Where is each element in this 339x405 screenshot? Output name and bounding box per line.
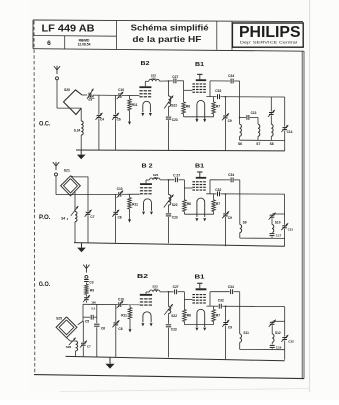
right frame double line	[301, 51, 303, 378]
capacitor C34 (G.O.)	[230, 289, 234, 294]
svg-text:C6: C6	[117, 117, 121, 121]
ground (P.O.)	[81, 243, 83, 248]
svg-text:5.5: 5.5	[91, 307, 95, 311]
transformer B2 core bar (G.O.)	[140, 294, 152, 296]
svg-text:S12: S12	[275, 331, 281, 335]
HF rail (P.O.)	[206, 193, 284, 195]
resistor R9	[85, 284, 89, 294]
wire S10 branch (P.O.)	[272, 213, 285, 215]
capacitor C13 branch (O.C.)	[240, 116, 258, 118]
transformer B1 core laminations (O.C.)	[192, 83, 195, 84]
svg-text:C 27: C 27	[173, 173, 180, 177]
paper right edge shadow	[309, 0, 311, 392]
antenna (G.O.)	[85, 269, 87, 273]
coil S9	[239, 194, 241, 225]
transformer B1 adjustable core (G.O.)	[199, 283, 201, 288]
svg-text:B1: B1	[195, 163, 204, 169]
adjustable coil S22 (G.O.)	[168, 292, 170, 307]
trimmer C9 (G.O.)	[225, 306, 227, 359]
svg-text:P.O.: P.O.	[39, 214, 51, 221]
svg-text:LF 449 AB: LF 449 AB	[42, 24, 95, 35]
transformer B1 core laminations (P.O.)	[192, 181, 195, 182]
coil S26	[67, 338, 76, 341]
trimmer capacitor 100/5.5 (O.C.)	[88, 92, 92, 98]
ground bus (O.C.)	[76, 149, 285, 152]
winding S23 (P.O.)	[150, 178, 161, 180]
svg-text:R11: R11	[132, 202, 138, 206]
wire antenna to node (P.O.)	[56, 194, 88, 196]
header bottom border	[33, 49, 304, 52]
transformer B1 core bar (P.O.)	[196, 177, 206, 179]
trimmer C21	[284, 194, 286, 246]
winding S23 (O.C.)	[149, 79, 160, 81]
capacitor C32 (P.O.)	[217, 191, 221, 196]
B1 left stub (G.O.)	[184, 299, 192, 301]
svg-text:C9: C9	[228, 216, 232, 220]
trimmer above S8	[270, 97, 272, 124]
frame antenna coil S25 inner	[59, 320, 74, 335]
svg-text:C7: C7	[87, 344, 91, 348]
adjustable coil S22 (O.C.)	[168, 81, 170, 96]
capacitor C10 (O.C.)	[118, 93, 122, 98]
antenna (O.C.)	[56, 70, 58, 74]
svg-text:C10: C10	[117, 187, 123, 191]
svg-text:S22: S22	[171, 104, 177, 108]
capacitor C27 (G.O.)	[174, 289, 178, 294]
left frame dashed line	[33, 21, 36, 375]
svg-text:R7: R7	[216, 202, 220, 206]
trimmer C4	[98, 95, 100, 150]
svg-text:C34: C34	[228, 285, 234, 289]
wire antenna down (O.C.)	[56, 80, 58, 108]
svg-text:Dép’ SERVICE Central: Dép’ SERVICE Central	[240, 41, 297, 45]
svg-text:C21: C21	[288, 228, 294, 232]
trimmer C7 (G.O.)	[82, 321, 84, 357]
B1 riser (P.O.)	[209, 180, 211, 194]
transformer B2 core bar (O.C.)	[139, 86, 151, 88]
node S22 branch (O.C.)	[168, 80, 170, 82]
capacitor C27 (O.C.)	[173, 78, 177, 83]
wire C5 drop (G.O.)	[82, 304, 84, 321]
title cell right border	[216, 21, 218, 50]
winding S23 riser (G.O.)	[145, 292, 147, 294]
fraction bar (O.C. trimmer)	[89, 97, 95, 99]
svg-text:S20: S20	[64, 88, 70, 92]
svg-text:C22: C22	[288, 340, 294, 344]
svg-text:C23: C23	[171, 327, 177, 331]
drop to HF rail (P.O.)	[239, 180, 241, 194]
philips box left spacer border	[231, 21, 233, 50]
C34 rail (G.O.)	[210, 291, 231, 293]
svg-text:S21: S21	[64, 168, 70, 172]
svg-text:C10: C10	[118, 298, 124, 302]
wire loop to C5 node (G.O.)	[78, 321, 83, 325]
svg-text:S6: S6	[238, 142, 242, 146]
resistor R11 (P.O.)	[129, 194, 131, 197]
capacitor C32 (G.O.)	[218, 304, 222, 309]
coupling coil of B1 (O.C.)	[197, 100, 205, 119]
wire C23 to bus (G.O.)	[168, 328, 170, 358]
svg-text:R6: R6	[187, 202, 191, 206]
capacitor C17	[271, 233, 273, 239]
wire C34 to corner (O.C.)	[234, 80, 240, 82]
svg-text:B1: B1	[195, 62, 204, 68]
svg-text:100: 100	[153, 176, 158, 180]
svg-text:B1: B1	[195, 275, 205, 281]
winding S23 riser (O.C.)	[144, 81, 146, 86]
capacitor C3	[85, 278, 87, 284]
frame antenna coil S21 inner	[64, 179, 78, 193]
HF rail (O.C.)	[206, 96, 284, 98]
title block LF 449 AB cell border	[116, 21, 118, 50]
wire S23 to C27 (G.O.)	[160, 291, 174, 293]
LF 449 AB row divider	[33, 35, 117, 38]
svg-text:100: 100	[153, 288, 158, 292]
node C13 (O.C.)	[239, 117, 241, 119]
transformer B2 core laminations (O.C.)	[139, 90, 142, 91]
paper bottom edge shadow	[60, 389, 309, 392]
wire C27 to B1 (O.C.)	[177, 80, 184, 82]
svg-text:S22: S22	[171, 314, 177, 318]
wire S23 to C27 (P.O.)	[160, 179, 174, 181]
B1 left leg wire (G.O.)	[183, 292, 185, 310]
svg-text:C23: C23	[172, 215, 178, 219]
adjustable coil S22 (P.O.)	[168, 180, 170, 195]
svg-text:B 2: B 2	[142, 164, 153, 170]
svg-text:C23: C23	[172, 118, 178, 122]
svg-text:C3: C3	[89, 280, 93, 284]
B1 left leg wire (O.C.)	[183, 81, 185, 102]
transformer B1 core bar (G.O.)	[196, 288, 207, 290]
svg-text:R11: R11	[132, 103, 138, 107]
header left edge	[32, 20, 34, 49]
svg-text:Schéma simplifié: Schéma simplifié	[131, 23, 209, 33]
coupling coil of B2 (G.O.)	[143, 312, 151, 323]
svg-text:S11: S11	[243, 331, 249, 335]
coil S10	[272, 225, 274, 233]
svg-text:C34: C34	[228, 173, 234, 177]
transformer B2 core bar (P.O.)	[140, 183, 152, 185]
svg-text:6: 6	[47, 40, 51, 47]
wire S12 branch (G.O.)	[272, 320, 285, 322]
svg-text:C6: C6	[101, 327, 105, 331]
svg-text:S22: S22	[172, 203, 178, 207]
trimmer of S10 (P.O.)	[271, 214, 273, 225]
B1 left stub (P.O.)	[184, 187, 192, 189]
svg-text:100: 100	[151, 77, 156, 81]
svg-text:C32: C32	[218, 299, 224, 303]
wire loop to trimmer (O.C.)	[82, 94, 87, 96]
svg-text:C7: C7	[90, 215, 94, 219]
capacitor C6 (G.O.)	[96, 304, 98, 357]
svg-text:C32: C32	[215, 89, 221, 93]
wire antenna to loop (O.C.)	[57, 107, 81, 109]
svg-text:C9: C9	[228, 119, 232, 123]
svg-text:S26: S26	[66, 345, 72, 349]
divider between 6 and RB/MD cells	[64, 36, 66, 49]
svg-text:R7: R7	[216, 104, 220, 108]
trimmer C14	[282, 127, 287, 131]
svg-text:de la partie HF: de la partie HF	[132, 34, 201, 44]
coil S43	[74, 191, 76, 211]
B1 bottom bus (O.C.)	[184, 116, 214, 118]
B1 left leg wire (P.O.)	[183, 180, 185, 200]
svg-text:100: 100	[91, 300, 96, 304]
trimmer C6 (O.C.)	[114, 95, 116, 150]
svg-text:S9: S9	[243, 221, 247, 225]
svg-text:C14: C14	[287, 130, 293, 134]
resistor R6 (P.O.)	[183, 200, 187, 212]
frame antenna coil S25 outer	[56, 317, 77, 338]
wire C34 to drop (P.O.)	[234, 179, 240, 181]
resistor R7 (G.O.)	[213, 306, 215, 309]
svg-text:C4: C4	[100, 117, 104, 121]
coupling coil of B1 (G.O.)	[197, 309, 205, 327]
svg-text:S7: S7	[256, 142, 260, 146]
secondary bus (O.C.)	[240, 139, 285, 141]
transformer B1 adjustable core (O.C.)	[199, 74, 201, 79]
svg-text:C8: C8	[118, 216, 122, 220]
wire C23 to bus (O.C.)	[168, 120, 170, 150]
B1 bottom bus (P.O.)	[184, 213, 213, 215]
svg-text:S8: S8	[270, 142, 274, 146]
svg-text:S4: S4	[61, 216, 65, 220]
frame antenna coil S21 outer	[61, 176, 81, 196]
wire C27 to B1 (G.O.)	[178, 291, 185, 293]
header top border	[33, 20, 303, 22]
svg-text:R9: R9	[90, 289, 94, 293]
capacitor C23 (G.O.)	[166, 324, 172, 328]
capacitor C23 (P.O.)	[166, 213, 172, 217]
coil S24	[80, 108, 82, 121]
ground bus (P.O.)	[74, 243, 285, 247]
C34 rail (P.O.)	[210, 179, 231, 181]
B1 left stub (O.C.)	[184, 89, 193, 91]
B1 riser (G.O.)	[209, 292, 211, 306]
secondary bus (P.O.)	[240, 237, 285, 239]
drop C34 rail to HF rail (O.C.)	[239, 81, 241, 97]
node C9 (P.O.)	[225, 193, 227, 195]
transformer B1 core laminations (G.O.)	[192, 294, 195, 295]
svg-text:C10: C10	[118, 88, 124, 92]
svg-text:B2: B2	[141, 61, 150, 67]
resistor R7 (O.C.)	[213, 97, 215, 102]
node C9 (G.O.)	[225, 306, 227, 308]
trimmer C9 (O.C.)	[224, 97, 226, 151]
transformer B1 adjustable core (P.O.)	[199, 172, 201, 177]
trimmer 100/5.5 (G.O.)	[84, 297, 89, 301]
coil S11	[239, 306, 241, 334]
svg-text:B2: B2	[137, 274, 148, 280]
trimmer C9 (P.O.)	[225, 194, 227, 246]
frame antenna coil S20	[64, 90, 83, 115]
winding S23 (G.O.)	[150, 290, 161, 292]
svg-text:PHILIPS: PHILIPS	[239, 24, 301, 41]
svg-text:C17: C17	[276, 233, 282, 237]
coupling coil of B2 (P.O.)	[144, 199, 152, 211]
transformer B2 core laminations (P.O.)	[140, 187, 143, 188]
svg-text:5.5: 5.5	[88, 98, 92, 102]
B1 riser to C34 rail (O.C.)	[209, 81, 211, 97]
trimmer C22	[284, 307, 286, 360]
svg-text:C32: C32	[215, 188, 221, 192]
svg-text:C27: C27	[173, 285, 179, 289]
svg-text:S25: S25	[56, 317, 62, 321]
coil S8	[271, 124, 273, 136]
node S22 branch (G.O.)	[168, 291, 170, 293]
svg-text:O.C.: O.C.	[39, 120, 51, 127]
wire S6 drop (O.C.)	[239, 97, 241, 125]
capacitor C34 (P.O.)	[230, 177, 234, 182]
transformer B1 core bar (O.C.)	[196, 79, 206, 81]
svg-text:R11: R11	[121, 313, 127, 317]
svg-text:C13: C13	[251, 111, 257, 115]
node S22 branch (P.O.)	[168, 179, 170, 181]
wire trimmer to C4 node (O.C.)	[93, 94, 140, 97]
svg-text:C34: C34	[228, 74, 234, 78]
coupling coil of B2 (O.C.)	[143, 101, 151, 112]
coil S6	[240, 124, 242, 136]
node C9 (O.C.)	[225, 96, 227, 98]
resistor R11 (O.C.)	[129, 96, 131, 99]
resistor R11 (G.O.)	[129, 305, 131, 308]
svg-text:R6: R6	[187, 314, 191, 318]
svg-text:S10: S10	[275, 221, 281, 225]
HF rail (G.O.)	[206, 305, 284, 308]
ground (G.O.)	[109, 357, 111, 364]
ground (O.C.)	[80, 150, 82, 155]
coil S7	[257, 117, 259, 124]
winding S23 riser (P.O.)	[145, 180, 147, 183]
capacitor C34 (O.C.)	[230, 78, 234, 83]
svg-text:100: 100	[90, 95, 95, 99]
svg-text:12.08.54: 12.08.54	[78, 42, 91, 46]
svg-text:C18: C18	[276, 346, 282, 350]
secondary bus (G.O.)	[240, 348, 285, 350]
capacitor C23 (O.C.)	[166, 116, 172, 120]
trimmer C8 (G.O.)	[115, 305, 117, 357]
svg-text:S.24: S.24	[74, 129, 81, 133]
svg-text:C5: C5	[85, 320, 89, 324]
resistor R7 (P.O.)	[213, 194, 215, 200]
bottom frame line	[34, 375, 304, 379]
wire C34 to drop (G.O.)	[234, 291, 240, 293]
transformer B2 core laminations (G.O.)	[140, 298, 143, 299]
wire antenna down (P.O.)	[55, 176, 57, 195]
svg-text:C27: C27	[172, 75, 178, 79]
svg-text:C8: C8	[118, 327, 122, 331]
wire S23 to C27 (O.C.)	[159, 80, 173, 82]
capacitor C5	[83, 316, 97, 318]
main wire (P.O.)	[88, 193, 140, 195]
capacitor C32 (O.C.)	[217, 94, 221, 99]
PHILIPS logo box	[232, 23, 303, 47]
trimmer C7 (P.O.)	[87, 195, 89, 243]
C34 rail (O.C.)	[210, 80, 231, 82]
capacitor C27 (P.O.)	[174, 177, 178, 182]
resistor R6 (O.C.)	[182, 102, 186, 114]
B1 bottom bus (G.O.)	[184, 324, 213, 326]
svg-text:G.O.: G.O.	[39, 281, 51, 288]
trimmer of S12 (G.O.)	[271, 321, 273, 334]
wire C23 to bus (P.O.)	[168, 217, 170, 243]
svg-text:R7: R7	[216, 314, 220, 318]
wire antenna to C3	[85, 277, 87, 279]
trimmer C8 (P.O.)	[115, 194, 117, 243]
antenna (P.O.)	[55, 166, 57, 170]
wire loop top to node (P.O.)	[71, 176, 89, 195]
coil S12	[272, 334, 274, 342]
svg-text:C9: C9	[228, 326, 232, 330]
ground bus (G.O.)	[66, 356, 285, 360]
drop to HF rail (G.O.)	[239, 292, 241, 307]
capacitor C10 (G.O.)	[118, 302, 122, 307]
svg-text:R6: R6	[186, 104, 190, 108]
resistor R6 (G.O.)	[183, 310, 187, 322]
main wire (G.O.)	[83, 303, 140, 305]
capacitor C18	[271, 342, 273, 349]
right leg wire (O.C.)	[284, 97, 286, 151]
coupling coil of B1 (P.O.)	[197, 198, 205, 217]
wire C27 to B1 (P.O.)	[178, 179, 184, 181]
capacitor C10 (P.O.)	[118, 192, 122, 197]
